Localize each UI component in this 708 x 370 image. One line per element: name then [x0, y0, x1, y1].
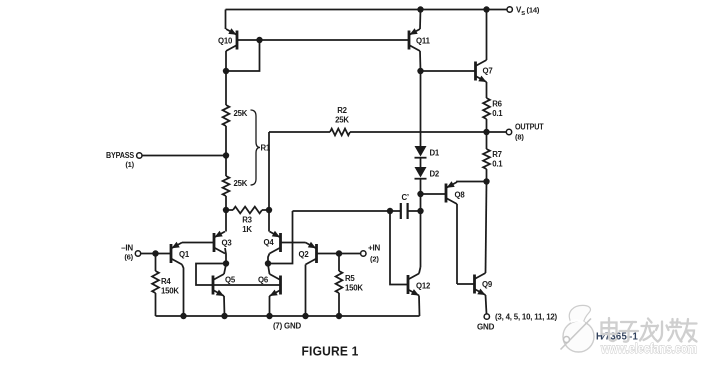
svg-text:R6: R6	[492, 100, 502, 109]
svg-text:Q3: Q3	[222, 239, 233, 248]
svg-text:(6): (6)	[124, 253, 133, 262]
svg-text:25K: 25K	[234, 179, 248, 188]
svg-text:+IN: +IN	[368, 244, 380, 253]
svg-text:D1: D1	[430, 149, 440, 158]
svg-text:R5: R5	[345, 274, 355, 283]
svg-text:Q4: Q4	[264, 238, 275, 247]
svg-text:1K: 1K	[242, 225, 252, 234]
svg-text:Q6: Q6	[258, 276, 269, 285]
svg-text:Q5: Q5	[225, 276, 236, 285]
svg-text:BYPASS: BYPASS	[106, 151, 135, 160]
svg-text:S: S	[521, 11, 525, 17]
svg-text:R3: R3	[242, 216, 252, 225]
svg-text:150K: 150K	[161, 287, 179, 296]
svg-text:C’: C’	[402, 193, 409, 202]
svg-text:(2): (2)	[370, 255, 379, 264]
svg-text:0.1: 0.1	[492, 160, 503, 169]
svg-text:(7) GND: (7) GND	[273, 322, 301, 331]
svg-text:R4: R4	[161, 277, 171, 286]
svg-text:Q9: Q9	[482, 280, 493, 289]
svg-text:Q10: Q10	[218, 37, 233, 46]
svg-text:(14): (14)	[527, 6, 540, 15]
svg-text:D2: D2	[430, 170, 440, 179]
svg-text:www.elecfans.com: www.elecfans.com	[600, 341, 697, 356]
svg-text:GND: GND	[477, 323, 495, 332]
svg-text:OUTPUT: OUTPUT	[515, 122, 544, 131]
svg-text:–IN: –IN	[121, 244, 133, 253]
svg-text:R2: R2	[337, 106, 347, 115]
svg-text:Q12: Q12	[416, 282, 431, 291]
svg-text:(3, 4, 5, 10, 11, 12): (3, 4, 5, 10, 11, 12)	[495, 313, 558, 322]
svg-text:Q8: Q8	[455, 191, 466, 200]
svg-text:FIGURE 1: FIGURE 1	[302, 345, 359, 359]
svg-text:Q2: Q2	[299, 250, 310, 259]
svg-text:(1): (1)	[125, 160, 134, 169]
svg-text:25K: 25K	[335, 116, 349, 125]
svg-text:25K: 25K	[234, 109, 248, 118]
svg-text:(8): (8)	[515, 133, 524, 142]
svg-text:Q7: Q7	[483, 67, 493, 76]
svg-text:R1: R1	[261, 144, 271, 153]
svg-text:R7: R7	[492, 150, 502, 159]
svg-text:Q1: Q1	[179, 250, 190, 259]
svg-text:0.1: 0.1	[492, 109, 503, 118]
svg-text:150K: 150K	[345, 284, 363, 293]
svg-text:Q11: Q11	[416, 37, 431, 46]
